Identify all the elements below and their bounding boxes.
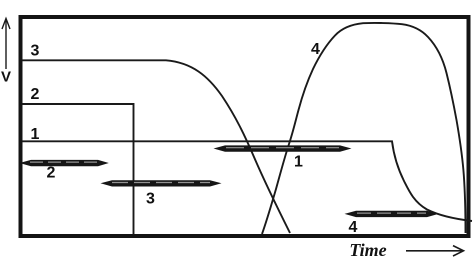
curve 4 (bell pulse) <box>262 23 466 234</box>
svg-text:2: 2 <box>31 86 40 103</box>
svg-text:3: 3 <box>146 191 155 208</box>
bar 1 (double-pointed thick bar) <box>214 145 352 151</box>
svg-text:3: 3 <box>31 43 40 60</box>
svg-text:1: 1 <box>294 154 303 171</box>
level line 1 (holds then decays) <box>22 141 472 221</box>
level line 2 (rectangular step) <box>22 104 134 234</box>
svg-text:2: 2 <box>47 165 56 182</box>
svg-text:V: V <box>1 69 11 86</box>
y-axis arrow <box>2 19 10 70</box>
bar 3 (double-pointed thick bar) <box>101 180 222 186</box>
plot frame <box>21 17 469 236</box>
bar 4 (double-pointed thick bar) <box>345 211 439 217</box>
bar 2 (double-pointed thick bar) <box>20 160 109 166</box>
svg-text:Time: Time <box>349 240 386 259</box>
x-axis arrow <box>406 246 464 256</box>
svg-text:4: 4 <box>349 219 358 236</box>
svg-text:1: 1 <box>31 126 40 143</box>
level line 3 (steps down as S-curve) <box>22 60 290 233</box>
svg-text:4: 4 <box>311 41 320 58</box>
